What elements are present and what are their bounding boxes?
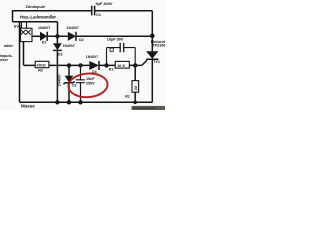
svg-text:1N4007: 1N4007 — [38, 26, 50, 30]
svg-text:47KΩ: 47KΩ — [37, 64, 46, 68]
svg-text:www.schaltung.de: www.schaltung.de — [133, 106, 156, 110]
svg-text:SV1: SV1 — [14, 24, 22, 29]
svg-text:1M: 1M — [134, 86, 138, 91]
svg-text:1N4007: 1N4007 — [67, 26, 79, 30]
svg-text:Zündspule: Zündspule — [26, 4, 47, 9]
svg-text:D3: D3 — [58, 52, 63, 56]
svg-text:1N4007: 1N4007 — [58, 74, 62, 86]
svg-text:geber: geber — [0, 58, 9, 62]
svg-text:250V: 250V — [86, 81, 95, 85]
svg-text:Hsp.-Ladewandler: Hsp.-Ladewandler — [20, 15, 56, 20]
svg-text:D1: D1 — [42, 40, 47, 44]
svg-text:R2: R2 — [125, 95, 130, 99]
svg-text:TY1: TY1 — [153, 60, 160, 64]
svg-text:R3: R3 — [38, 69, 43, 73]
svg-text:R1: R1 — [109, 67, 114, 71]
svg-text:D2: D2 — [79, 38, 84, 42]
svg-text:TP2306: TP2306 — [152, 43, 165, 48]
svg-text:ndler: ndler — [4, 44, 14, 48]
svg-text:C3: C3 — [72, 83, 77, 87]
svg-text:10µF 50V: 10µF 50V — [107, 37, 124, 41]
svg-text:10 K: 10 K — [117, 64, 125, 68]
svg-text:15nF: 15nF — [86, 77, 95, 81]
svg-text:5µF 400V: 5µF 400V — [96, 1, 113, 6]
svg-text:Masse: Masse — [21, 103, 35, 108]
svg-text:C1: C1 — [96, 12, 102, 17]
svg-text:1N4007: 1N4007 — [86, 55, 98, 59]
svg-text:1N4007: 1N4007 — [63, 44, 75, 48]
